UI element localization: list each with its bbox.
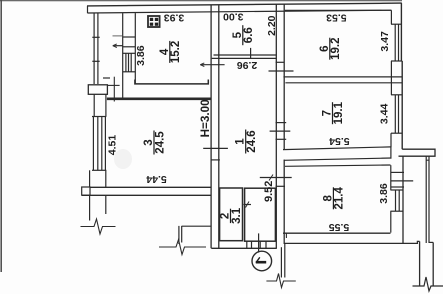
svg-text:21.4: 21.4 <box>334 187 346 210</box>
page left border <box>0 0 2 272</box>
svg-text:5.53: 5.53 <box>326 11 347 23</box>
room 4 window cap bottom <box>123 71 136 73</box>
room 6 top inner line <box>285 9 392 11</box>
tick on east wall y62 <box>276 61 285 63</box>
svg-text:2: 2 <box>220 213 232 219</box>
svg-text:H=3.00: H=3.00 <box>199 99 212 138</box>
loggia bottom slab edge <box>107 84 119 86</box>
ghost smudge in room 3 <box>114 149 132 169</box>
svg-text:4.51: 4.51 <box>107 135 119 156</box>
room 4 window cap top <box>123 52 136 54</box>
connector line to corridor wall <box>182 225 212 227</box>
svg-text:6: 6 <box>319 45 331 51</box>
pier tab at room 3 southwest <box>82 187 90 195</box>
loggia glazing (left window wall) <box>93 13 95 84</box>
dim dash 2.96 crossing west wall <box>200 64 224 66</box>
dim dash 2.20 <box>269 70 294 72</box>
svg-text:24.5: 24.5 <box>154 131 166 154</box>
svg-text:7: 7 <box>322 110 334 116</box>
svg-text:19.1: 19.1 <box>333 101 345 124</box>
loggia dash upper <box>113 35 123 37</box>
small dash left of strip <box>103 77 110 79</box>
balcony east rails <box>419 241 421 285</box>
room 3 window sill top <box>92 116 106 118</box>
svg-text:3.47: 3.47 <box>379 31 391 52</box>
shaft box bottom line in strip <box>123 36 136 38</box>
rooms 6/7 divider wall <box>283 76 401 78</box>
room 5 label 5/6.6 <box>232 25 255 45</box>
room 8 south wall outer line with jog <box>284 241 419 243</box>
top exterior wall outer line <box>87 3 402 6</box>
svg-text:2.96: 2.96 <box>237 59 258 71</box>
svg-text:5.54: 5.54 <box>329 135 350 147</box>
svg-text:3.1: 3.1 <box>231 207 243 224</box>
wall below room 3 with break <box>89 195 91 220</box>
room 3 south wall inner line <box>90 186 211 188</box>
room 8 east wall outer <box>402 156 404 243</box>
svg-text:15.2: 15.2 <box>170 41 182 63</box>
room 7 SE corner vertical <box>390 147 392 159</box>
dim tick at room2 east <box>244 204 252 206</box>
door ticks corridor east wall <box>276 122 287 124</box>
room 6 label 6/19.2 <box>319 38 342 60</box>
room 6 east window <box>391 23 402 25</box>
glazing tick mid <box>92 60 99 62</box>
svg-text:5: 5 <box>232 31 244 38</box>
loggia door edge vertical line <box>113 77 115 102</box>
building east wall outer line <box>400 3 402 61</box>
svg-text:3: 3 <box>143 139 155 145</box>
balcony west wall stub with break <box>280 247 282 277</box>
east stub bar <box>399 149 436 156</box>
bottom line under boxes <box>211 247 276 249</box>
room 4 window glazing <box>125 53 127 72</box>
svg-text:3.93: 3.93 <box>164 12 185 24</box>
svg-text:8: 8 <box>322 195 334 202</box>
axis circle 1 <box>252 251 272 271</box>
room 7 south inner line <box>283 147 391 150</box>
room 3 window sill bottom <box>92 169 106 171</box>
room 3 west wall upper segment <box>93 94 95 116</box>
top exterior wall inner line <box>88 10 392 13</box>
mid lower wall stub with break <box>178 226 180 244</box>
svg-text:2.20: 2.20 <box>266 15 278 36</box>
svg-text:5.55: 5.55 <box>329 221 350 233</box>
room 3 north wall <box>107 98 211 101</box>
divider middle line <box>284 158 392 160</box>
room 4 south wall <box>135 80 208 84</box>
svg-text:3.44: 3.44 <box>379 104 391 125</box>
corridor east wall (double line) <box>275 4 277 248</box>
dim tick 3.86 right <box>391 171 404 173</box>
room 7 east window <box>391 94 402 96</box>
break mark (balcony west) <box>266 274 295 288</box>
corridor west wall (double line) <box>210 5 212 248</box>
room 8 south wall inner line <box>283 232 391 234</box>
svg-text:4: 4 <box>159 48 171 55</box>
room 3 window glazing <box>97 117 99 171</box>
room 8 north inner line <box>285 165 391 166</box>
room 8 label 8/21.4 <box>322 187 345 210</box>
door opening line in strip <box>123 46 136 48</box>
top wall left end cap <box>87 6 89 13</box>
connector tabs under boxes <box>246 241 248 248</box>
svg-text:3.00: 3.00 <box>223 11 244 23</box>
svg-text:24.6: 24.6 <box>246 130 258 152</box>
axis label 1 in circle <box>256 257 266 262</box>
break mark (balcony east) <box>413 277 443 291</box>
loggia dim tick dash <box>113 45 123 47</box>
room 6 east wall inner segments <box>390 10 392 24</box>
svg-text:3.86: 3.86 <box>378 183 390 204</box>
closet box B <box>245 188 276 241</box>
dim tick 9.52 <box>260 177 292 179</box>
svg-text:19.2: 19.2 <box>330 38 342 60</box>
room 3 label 3/24.5 <box>143 131 166 155</box>
svg-text:5.44: 5.44 <box>146 173 167 185</box>
svg-text:1: 1 <box>235 138 247 145</box>
room 4 west wall strip <box>122 13 124 98</box>
closet box room 2 <box>220 188 243 241</box>
room 3 west wall lower segment <box>89 170 91 187</box>
glazing tick top <box>92 36 99 38</box>
svg-text:6.6: 6.6 <box>243 27 255 43</box>
room 7 east wall inner segment below window <box>390 133 392 147</box>
room 3 window outer wall lines <box>92 117 94 171</box>
break mark (left wall) <box>81 219 116 234</box>
page top border <box>0 0 402 2</box>
axis line to circle 1 <box>258 233 260 252</box>
svg-text:3.86: 3.86 <box>135 45 147 66</box>
pier between loggia and room 3 wall <box>88 85 107 95</box>
svg-text:9.52: 9.52 <box>263 181 275 202</box>
room 1 label 1/24.6 <box>235 130 258 154</box>
vent shaft symbol <box>148 16 160 27</box>
room 4 label 4/15.2 <box>159 41 182 63</box>
room 8 east wall inner <box>390 165 392 190</box>
dim tick 3.00 on room5 bottom <box>250 48 252 59</box>
break mark (mid wall) <box>159 240 206 255</box>
room 3 south wall outer line <box>82 194 211 196</box>
room 2 label 2/3.1 <box>220 207 243 224</box>
room 8 east window (hatch box) <box>390 189 403 191</box>
tick on east wall y186 <box>276 185 286 187</box>
room 5 bottom wall <box>214 54 277 56</box>
door tick corridor west wall <box>203 147 228 149</box>
room 7 label 7/19.1 <box>322 101 345 124</box>
